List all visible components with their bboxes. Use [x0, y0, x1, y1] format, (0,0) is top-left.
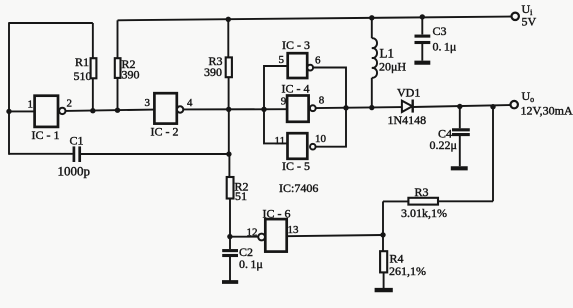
- svg-text:IC - 3: IC - 3: [282, 38, 310, 52]
- svg-text:0. 1μ: 0. 1μ: [433, 39, 457, 53]
- svg-text:R1: R1: [75, 55, 89, 69]
- svg-text:1000p: 1000p: [58, 164, 91, 179]
- svg-text:390: 390: [122, 68, 140, 82]
- svg-text:VD1: VD1: [397, 86, 420, 100]
- svg-text:L1: L1: [380, 46, 394, 61]
- svg-text:261,1%: 261,1%: [389, 264, 426, 278]
- svg-text:51: 51: [235, 189, 247, 203]
- svg-text:4: 4: [187, 97, 193, 109]
- svg-text:3: 3: [145, 97, 151, 109]
- svg-text:12V,30mA: 12V,30mA: [521, 103, 573, 117]
- svg-text:9: 9: [281, 96, 287, 108]
- svg-text:5: 5: [279, 54, 285, 66]
- svg-text:IC:7406: IC:7406: [279, 181, 318, 195]
- svg-text:IC - 6: IC - 6: [263, 206, 291, 220]
- svg-text:390: 390: [204, 65, 222, 79]
- svg-text:510: 510: [74, 69, 92, 83]
- svg-text:12: 12: [247, 226, 258, 238]
- svg-text:IC - 4: IC - 4: [282, 81, 310, 95]
- svg-text:6: 6: [315, 55, 321, 67]
- svg-text:0. 1μ: 0. 1μ: [239, 257, 263, 271]
- svg-text:10: 10: [315, 133, 327, 145]
- svg-text:C1: C1: [70, 133, 84, 147]
- svg-text:IC - 1: IC - 1: [32, 128, 60, 142]
- svg-text:0.22μ: 0.22μ: [430, 138, 457, 152]
- svg-text:C3: C3: [433, 24, 447, 38]
- svg-text:1N4148: 1N4148: [388, 113, 427, 127]
- svg-text:11: 11: [275, 135, 286, 147]
- svg-text:IC - 5: IC - 5: [282, 159, 310, 173]
- svg-text:13: 13: [288, 224, 300, 236]
- svg-text:IC - 2: IC - 2: [151, 125, 179, 139]
- svg-text:R3: R3: [415, 185, 429, 199]
- svg-text:1: 1: [28, 99, 34, 111]
- svg-text:5V: 5V: [522, 14, 537, 28]
- svg-text:2: 2: [67, 98, 73, 110]
- svg-text:20μH: 20μH: [379, 60, 406, 74]
- svg-text:3.01k,1%: 3.01k,1%: [401, 206, 447, 220]
- svg-text:8: 8: [319, 94, 325, 106]
